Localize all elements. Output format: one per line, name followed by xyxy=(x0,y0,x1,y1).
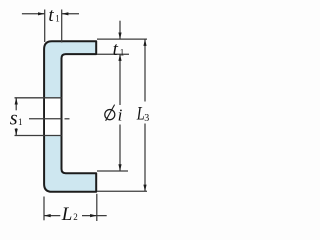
svg-text:s: s xyxy=(10,108,18,130)
svg-text:L: L xyxy=(61,204,73,225)
svg-text:2: 2 xyxy=(73,212,78,222)
svg-text:i: i xyxy=(118,105,123,124)
svg-text:1: 1 xyxy=(55,14,60,24)
svg-text:1: 1 xyxy=(120,47,125,57)
svg-text:t: t xyxy=(48,5,54,26)
svg-text:t: t xyxy=(113,39,119,60)
svg-text:1: 1 xyxy=(18,117,23,127)
svg-text:3: 3 xyxy=(144,113,149,124)
